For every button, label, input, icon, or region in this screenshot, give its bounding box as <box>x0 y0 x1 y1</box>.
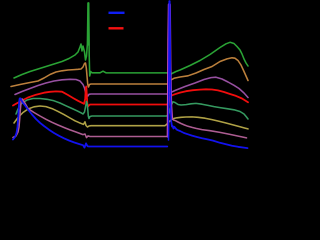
curve khaki sixth trace <box>14 106 248 129</box>
spike blue tall spike at offset <box>169 1 172 140</box>
curve green top trace <box>14 3 248 78</box>
curve blue right tail after spike <box>171 122 247 148</box>
curve plum magenta seventh trace left and flat <box>13 99 167 138</box>
legend red sample line <box>109 27 124 29</box>
spike green tall spike at onset <box>88 3 89 45</box>
curve tan second trace <box>11 58 248 87</box>
curve orchid third trace <box>15 77 248 97</box>
legend blue sample line <box>109 12 125 14</box>
curve red fourth trace <box>13 87 248 107</box>
curve teal fifth trace <box>16 99 248 120</box>
spike magenta tall spike at offset <box>168 5 172 137</box>
curve magenta right tail after spike <box>172 118 247 138</box>
curve blue bottom trace left and flat <box>13 98 167 147</box>
